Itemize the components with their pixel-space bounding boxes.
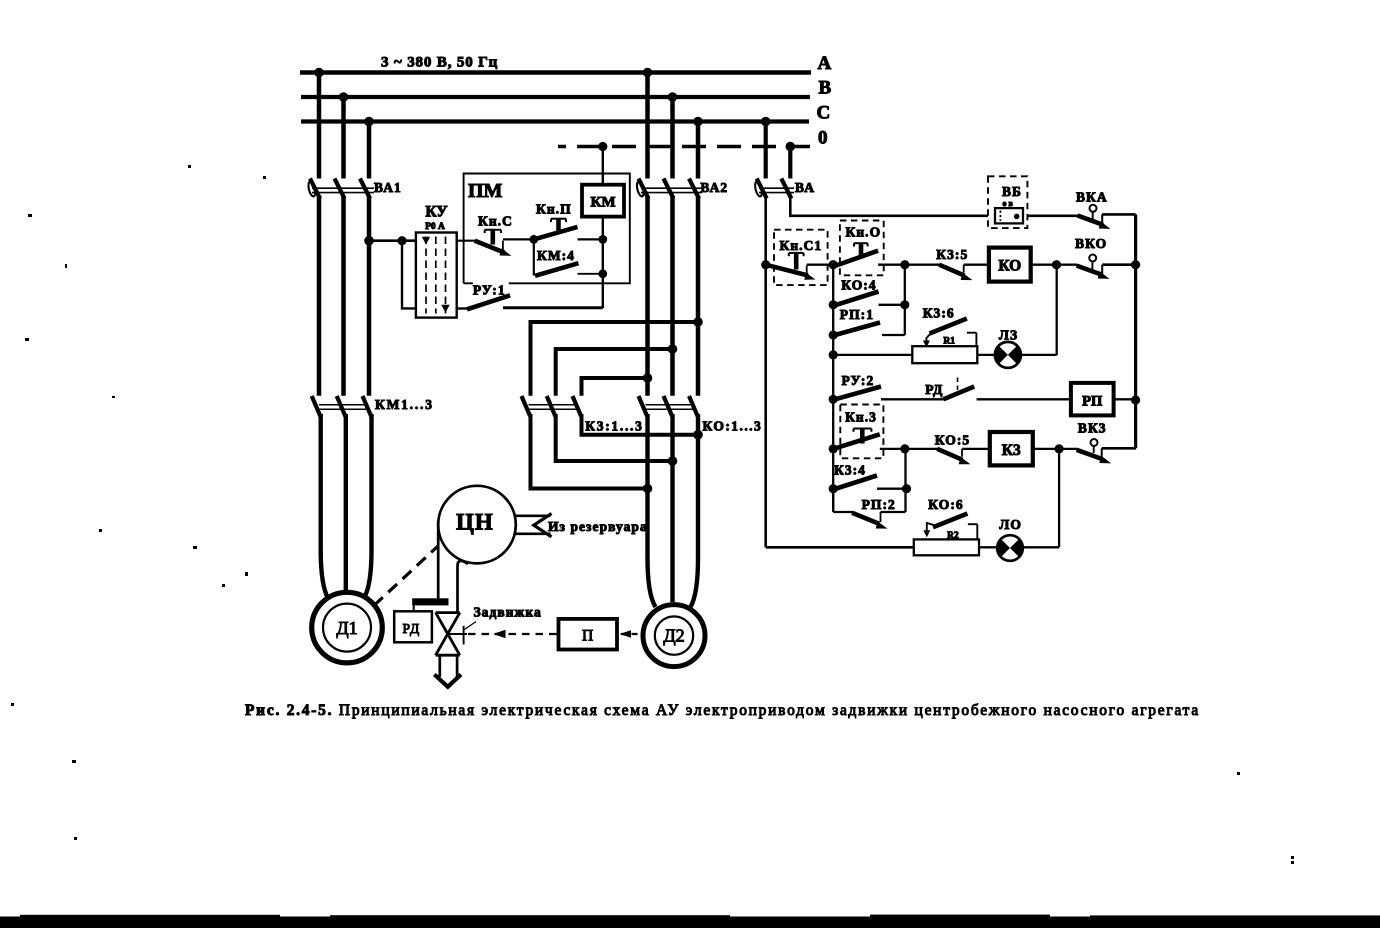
node K3:4 output bbox=[902, 484, 911, 493]
wire BA pole2 to top row bbox=[790, 196, 988, 216]
svg-text:о в: о в bbox=[1003, 199, 1014, 208]
contactor coil K3 bbox=[990, 432, 1033, 465]
svg-text:РУ:1: РУ:1 bbox=[473, 283, 506, 298]
svg-text:КО:1...3: КО:1...3 bbox=[703, 419, 763, 434]
contact RD (pressure switch) bbox=[944, 378, 1071, 400]
wire KO2 to motor D2 bbox=[670, 414, 674, 602]
svg-text:Задвижка: Задвижка bbox=[474, 605, 542, 620]
contactor K3:1...3 main contacts bbox=[522, 396, 582, 417]
wire lamp branch vertical bbox=[1056, 265, 1058, 355]
pressure relay RD box bbox=[394, 611, 432, 642]
svg-text:Кн.П: Кн.П bbox=[536, 202, 572, 217]
contact KO:4 bbox=[833, 292, 905, 306]
node Kn.P input bbox=[529, 235, 538, 244]
svg-text:КО:6: КО:6 bbox=[928, 497, 963, 512]
node bus2 RU:2 bbox=[829, 395, 838, 404]
svg-text:0: 0 bbox=[818, 128, 828, 149]
relay coil RP bbox=[1071, 383, 1114, 416]
node crossover C bbox=[643, 373, 653, 383]
svg-text:К3:1...3: К3:1...3 bbox=[585, 419, 643, 434]
safety block VB (dashed enclosure) bbox=[988, 176, 1027, 228]
motor D2 bbox=[643, 605, 705, 667]
auxiliary contact KM:4 bbox=[534, 239, 603, 275]
wire K3 pole2 output bbox=[556, 414, 673, 461]
wire Kn.3 output vertical bbox=[904, 449, 906, 512]
svg-text:КМ:4: КМ:4 bbox=[537, 248, 575, 263]
node KO:4 output bbox=[900, 300, 909, 309]
wire K3 pole1 output bbox=[531, 414, 648, 489]
limit switch VK3 bbox=[1077, 439, 1136, 463]
contactor KO:1...3 main contacts bbox=[639, 396, 698, 417]
breaker BA (2-pole) bbox=[754, 179, 794, 199]
wire KM2 to motor D1 bbox=[344, 414, 348, 593]
node Kn.O output bbox=[900, 260, 909, 269]
wire RP to rail bbox=[1114, 398, 1136, 400]
inlet flow arrow bbox=[534, 514, 552, 537]
wire control bus2 bbox=[832, 265, 834, 512]
svg-text:КМ1...3: КМ1...3 bbox=[375, 397, 434, 412]
label zadvizhka + leader bbox=[465, 622, 477, 630]
wire KO1 to motor D2 bbox=[648, 414, 656, 607]
arrow to P bbox=[620, 630, 632, 638]
svg-text:ВКО: ВКО bbox=[1075, 236, 1107, 251]
svg-text:3 ~ 380 В, 50 Гц: 3 ~ 380 В, 50 Гц bbox=[381, 55, 498, 71]
svg-text:КО:4: КО:4 bbox=[841, 278, 876, 293]
node bus2 KO:4 bbox=[829, 300, 838, 309]
svg-text:ЦН: ЦН bbox=[456, 510, 494, 535]
node bus2 top bbox=[829, 260, 838, 269]
wire lamp LO to branch vertical bbox=[1023, 546, 1059, 548]
svg-text:КУ: КУ bbox=[425, 204, 448, 221]
svg-text:R2: R2 bbox=[947, 531, 959, 541]
wire tap A to BA1 pole1 bbox=[317, 73, 322, 179]
svg-text:П: П bbox=[582, 628, 593, 645]
pump inlet pipe bbox=[515, 514, 551, 517]
VB inner relay box bbox=[995, 208, 1023, 223]
PM cabinet box bbox=[464, 174, 630, 284]
svg-text:ПМ: ПМ bbox=[468, 180, 503, 202]
node K3 pole1 output bbox=[643, 484, 653, 494]
node bus2 lamp row bbox=[829, 350, 838, 359]
bus C bbox=[301, 119, 809, 123]
svg-text:ВА: ВА bbox=[795, 180, 815, 195]
wire BA2 pole2 down to KO2 bbox=[670, 196, 675, 396]
svg-text:ЛЗ: ЛЗ bbox=[999, 328, 1018, 343]
scan specks bbox=[11, 165, 1294, 864]
svg-text:К3:5: К3:5 bbox=[936, 247, 968, 262]
node on bus 0 bbox=[598, 142, 607, 151]
svg-text:КО: КО bbox=[998, 258, 1021, 275]
svg-text:РД: РД bbox=[925, 382, 943, 397]
wire KU bypass left leg bbox=[402, 241, 416, 309]
mechanical dashed link D2-P bbox=[621, 633, 644, 635]
wire KM coil to bus 0 bbox=[602, 147, 604, 185]
contact K3:6 (shunt) bbox=[923, 319, 977, 348]
wire tap B to BA1 pole2 bbox=[341, 97, 346, 179]
valve outlet funnel bbox=[438, 657, 441, 678]
gearbox P box bbox=[559, 619, 618, 650]
valve (zadvizhka) body bbox=[436, 613, 460, 656]
node crossover A bbox=[693, 317, 703, 327]
breaker BA1 bbox=[307, 179, 374, 199]
scan bar bottom bbox=[0, 917, 1380, 928]
resistor R1 bbox=[912, 346, 977, 363]
contactor coil KM bbox=[582, 185, 624, 217]
wire BA1 pole1 down to KM1 bbox=[317, 196, 322, 396]
valve stem bbox=[448, 633, 467, 635]
wire crossover phase C to K3 pole3 bbox=[582, 378, 648, 396]
wire to K3:5 bbox=[905, 264, 940, 266]
node KU bypass bbox=[397, 236, 406, 245]
contact RU:1 bbox=[457, 295, 603, 309]
wire R2 to lamp LO bbox=[979, 546, 998, 548]
wire KO3 to motor D2 bbox=[691, 414, 699, 607]
svg-text:РП: РП bbox=[1082, 394, 1102, 410]
motor D1 bbox=[312, 592, 383, 663]
control transformer KU box bbox=[416, 233, 457, 318]
svg-text:R1: R1 bbox=[943, 337, 955, 347]
node tap C/BA bbox=[761, 117, 771, 127]
wire crossover phase B to K3 pole2 bbox=[556, 349, 673, 396]
contactor KM1...3 main contacts bbox=[312, 396, 372, 417]
limit switch VKA bbox=[1078, 205, 1136, 229]
KU arrow bottom bbox=[441, 305, 449, 313]
svg-text:Д1: Д1 bbox=[336, 618, 357, 638]
mechanical dashed link valve-P bbox=[468, 633, 557, 635]
node tap C/BA1 bbox=[364, 117, 374, 127]
contact RP:2 (NC) bbox=[833, 489, 905, 529]
svg-text:Из резервуара: Из резервуара bbox=[548, 519, 648, 534]
node Kn.3 output bbox=[900, 444, 909, 453]
pushbutton Kn.3 (dashed box) bbox=[840, 405, 883, 459]
svg-text:С: С bbox=[817, 103, 831, 124]
svg-text:РД: РД bbox=[403, 621, 421, 636]
svg-text:ВБ: ВБ bbox=[1002, 184, 1022, 199]
wire BA2 pole1 down to KO1 bbox=[645, 196, 650, 396]
pushbutton Kn.C (stop) bbox=[475, 230, 534, 256]
svg-text:Р0 А: Р0 А bbox=[425, 222, 445, 232]
wire to KO:5 bbox=[905, 448, 938, 450]
contact K3:4 bbox=[833, 476, 906, 490]
wire BA1 pole3 down to KM3 bbox=[367, 196, 372, 396]
wire KO to VKO bbox=[1031, 264, 1077, 266]
node tap B/BA2 bbox=[668, 92, 678, 102]
svg-text:В: В bbox=[819, 78, 832, 99]
contact RU:2 bbox=[833, 387, 944, 400]
node crossover B bbox=[668, 344, 678, 354]
wire KM coil bottom down bbox=[602, 217, 604, 308]
pump volute tangent line bbox=[437, 521, 440, 602]
node KM coil / Kn.P output bbox=[598, 235, 607, 244]
svg-text:Рис. 2.4-5. Принципиальная эле: Рис. 2.4-5. Принципиальная электрическая… bbox=[245, 702, 1200, 719]
wire LO branch vertical bbox=[1058, 449, 1060, 547]
node KM:4 output bbox=[598, 269, 607, 278]
pushbutton Kn.C1 (dashed box) bbox=[774, 230, 828, 285]
wire tap A to BA2 pole1 bbox=[645, 73, 650, 179]
node BA1 pole3 / KU input bbox=[364, 236, 374, 246]
node tap A/BA1 bbox=[314, 68, 324, 78]
arrow to valve bbox=[493, 630, 506, 638]
node tap A/BA2 bbox=[643, 68, 653, 78]
wire K3:5 feeder vertical bbox=[904, 265, 906, 335]
resistor R2 bbox=[914, 539, 979, 555]
contactor coil KO bbox=[989, 248, 1031, 282]
svg-text:Кн.3: Кн.3 bbox=[845, 410, 877, 425]
bus A bbox=[300, 70, 811, 75]
valve outlet flow arrow bbox=[434, 675, 461, 687]
node lamp LO branch bbox=[1055, 444, 1064, 453]
limit switch VKO bbox=[1077, 255, 1136, 279]
wire left control rail bbox=[764, 196, 767, 547]
wire right control rail bbox=[1134, 214, 1137, 448]
wire bus2 to R1 bbox=[833, 354, 912, 356]
wire crossover phase A to K3 pole1 bbox=[531, 322, 699, 396]
wire R1 to lamp bbox=[977, 354, 995, 356]
contact K3:5 (NC) bbox=[939, 265, 989, 280]
node bus2 Kn.3 bbox=[829, 444, 838, 453]
KU internal dashed lines bbox=[426, 237, 446, 314]
lamp L3 bbox=[995, 342, 1021, 368]
node K3 pole2 output bbox=[668, 456, 678, 466]
svg-text:Д2: Д2 bbox=[663, 626, 684, 646]
node lamp branch top bbox=[1052, 260, 1061, 269]
wire bottom return bbox=[766, 546, 914, 549]
svg-text:РП:2: РП:2 bbox=[862, 497, 896, 512]
wire KM3 to motor D1 bbox=[364, 414, 372, 599]
wire K3 to VK3 bbox=[1033, 448, 1077, 450]
node tap C/BA2 bbox=[693, 117, 703, 127]
svg-text:КМ: КМ bbox=[590, 195, 615, 211]
bus B bbox=[301, 95, 810, 99]
wire tap 0 to BA pole2 bbox=[788, 147, 792, 179]
node rail RP bbox=[1131, 395, 1140, 404]
svg-text:ВА2: ВА2 bbox=[700, 180, 728, 195]
wire tap B to BA2 pole2 bbox=[670, 97, 675, 179]
node tap B/BA1 bbox=[339, 92, 349, 102]
svg-text:А: А bbox=[818, 53, 832, 74]
pump outlet pipe line bbox=[458, 561, 469, 613]
wire RD to bar bbox=[413, 605, 415, 611]
svg-text:ЛО: ЛО bbox=[999, 517, 1022, 532]
wire BA2 pole3 down to KO3 bbox=[696, 196, 701, 396]
bus 0 (neutral, dashed) bbox=[558, 145, 810, 149]
svg-text:РП:1: РП:1 bbox=[840, 307, 874, 322]
contact KO:6 (shunt) bbox=[923, 514, 977, 540]
svg-text:РУ:2: РУ:2 bbox=[842, 373, 875, 388]
wire tap C to BA pole1 bbox=[764, 122, 768, 179]
node bus2 RP:1 bbox=[829, 330, 838, 339]
pump CN (centrifugal) bbox=[438, 486, 516, 564]
wire tap C to BA1 pole3 bbox=[367, 122, 372, 179]
svg-text:К3: К3 bbox=[1002, 442, 1021, 459]
wire KU output bbox=[457, 240, 476, 242]
svg-text:К3:4: К3:4 bbox=[834, 463, 866, 478]
node left rail / Kn.C1 bbox=[761, 260, 770, 269]
wire tap C to BA2 pole3 bbox=[696, 122, 701, 179]
wire K3 pole3 output bbox=[582, 414, 699, 435]
svg-text:КО:5: КО:5 bbox=[935, 433, 970, 448]
node bus2 K3:4 bbox=[829, 484, 838, 493]
lamp LO bbox=[997, 535, 1023, 561]
RD sensor bar (solid) bbox=[412, 598, 448, 605]
svg-text:ВА1: ВА1 bbox=[374, 180, 402, 195]
KU arrow top bbox=[422, 237, 430, 245]
pushbutton Kn.P (start) bbox=[534, 219, 603, 240]
node tap 0/BA bbox=[786, 142, 796, 152]
svg-text:Кн.С1: Кн.С1 bbox=[780, 238, 823, 253]
mechanical shaft D1-pump (dashed) bbox=[374, 546, 438, 606]
contact KO:5 (NC) bbox=[937, 449, 990, 464]
svg-text:ВКА: ВКА bbox=[1076, 190, 1108, 205]
wire to KU bbox=[369, 239, 416, 242]
svg-text:К3:6: К3:6 bbox=[923, 306, 955, 321]
wire KM1 to motor D1 bbox=[321, 414, 329, 599]
svg-text:Кн.О: Кн.О bbox=[846, 225, 882, 240]
svg-text:ВК3: ВК3 bbox=[1078, 421, 1107, 436]
contact RP:1 bbox=[833, 323, 905, 336]
node K3 pole3 output bbox=[693, 430, 703, 440]
wire BA1 pole2 down to KM2 bbox=[341, 196, 346, 396]
breaker BA2 bbox=[636, 179, 702, 199]
wire lamp to junction bbox=[1021, 354, 1057, 356]
node right rail / VKO bbox=[1131, 260, 1140, 269]
pushbutton Kn.O (dashed box) bbox=[840, 221, 884, 276]
wire VB to VKA bbox=[1027, 215, 1078, 218]
svg-text:Кн.С: Кн.С bbox=[478, 214, 513, 229]
